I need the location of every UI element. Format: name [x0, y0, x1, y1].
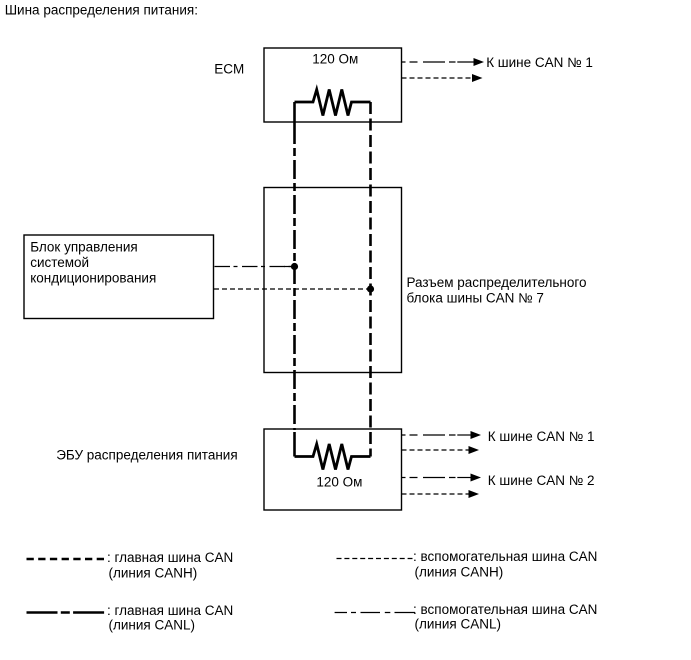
svg-text:(линия CANH): (линия CANH) — [415, 564, 504, 579]
svg-text:Шина распределения питания:: Шина распределения питания: — [5, 2, 198, 17]
svg-text:(линия CANL): (линия CANL) — [415, 617, 501, 632]
svg-text:(линия CANL): (линия CANL) — [109, 617, 195, 632]
svg-text:: главная шина CAN: : главная шина CAN — [107, 550, 233, 565]
svg-text:Разъем распределительного: Разъем распределительного — [407, 275, 587, 290]
svg-text:системой: системой — [30, 255, 89, 270]
svg-text:К шине CAN № 1: К шине CAN № 1 — [486, 55, 593, 70]
svg-text:: вспомогательная шина CAN: : вспомогательная шина CAN — [413, 549, 597, 564]
svg-text:К шине CAN № 1: К шине CAN № 1 — [488, 429, 595, 444]
svg-text:120 Ом: 120 Ом — [316, 475, 362, 490]
svg-text:блока шины CAN № 7: блока шины CAN № 7 — [407, 291, 544, 306]
svg-text:(линия CANH): (линия CANH) — [109, 565, 198, 580]
svg-text:: вспомогательная шина CAN: : вспомогательная шина CAN — [413, 602, 597, 617]
svg-text:ЭБУ распределения питания: ЭБУ распределения питания — [56, 448, 237, 463]
svg-text:ECM: ECM — [214, 61, 244, 76]
svg-text:К шине CAN № 2: К шине CAN № 2 — [488, 473, 595, 488]
svg-text:: главная шина CAN: : главная шина CAN — [107, 603, 233, 618]
svg-text:120 Ом: 120 Ом — [312, 52, 358, 67]
svg-text:Блок управления: Блок управления — [30, 240, 138, 255]
svg-text:кондиционирования: кондиционирования — [30, 271, 156, 286]
